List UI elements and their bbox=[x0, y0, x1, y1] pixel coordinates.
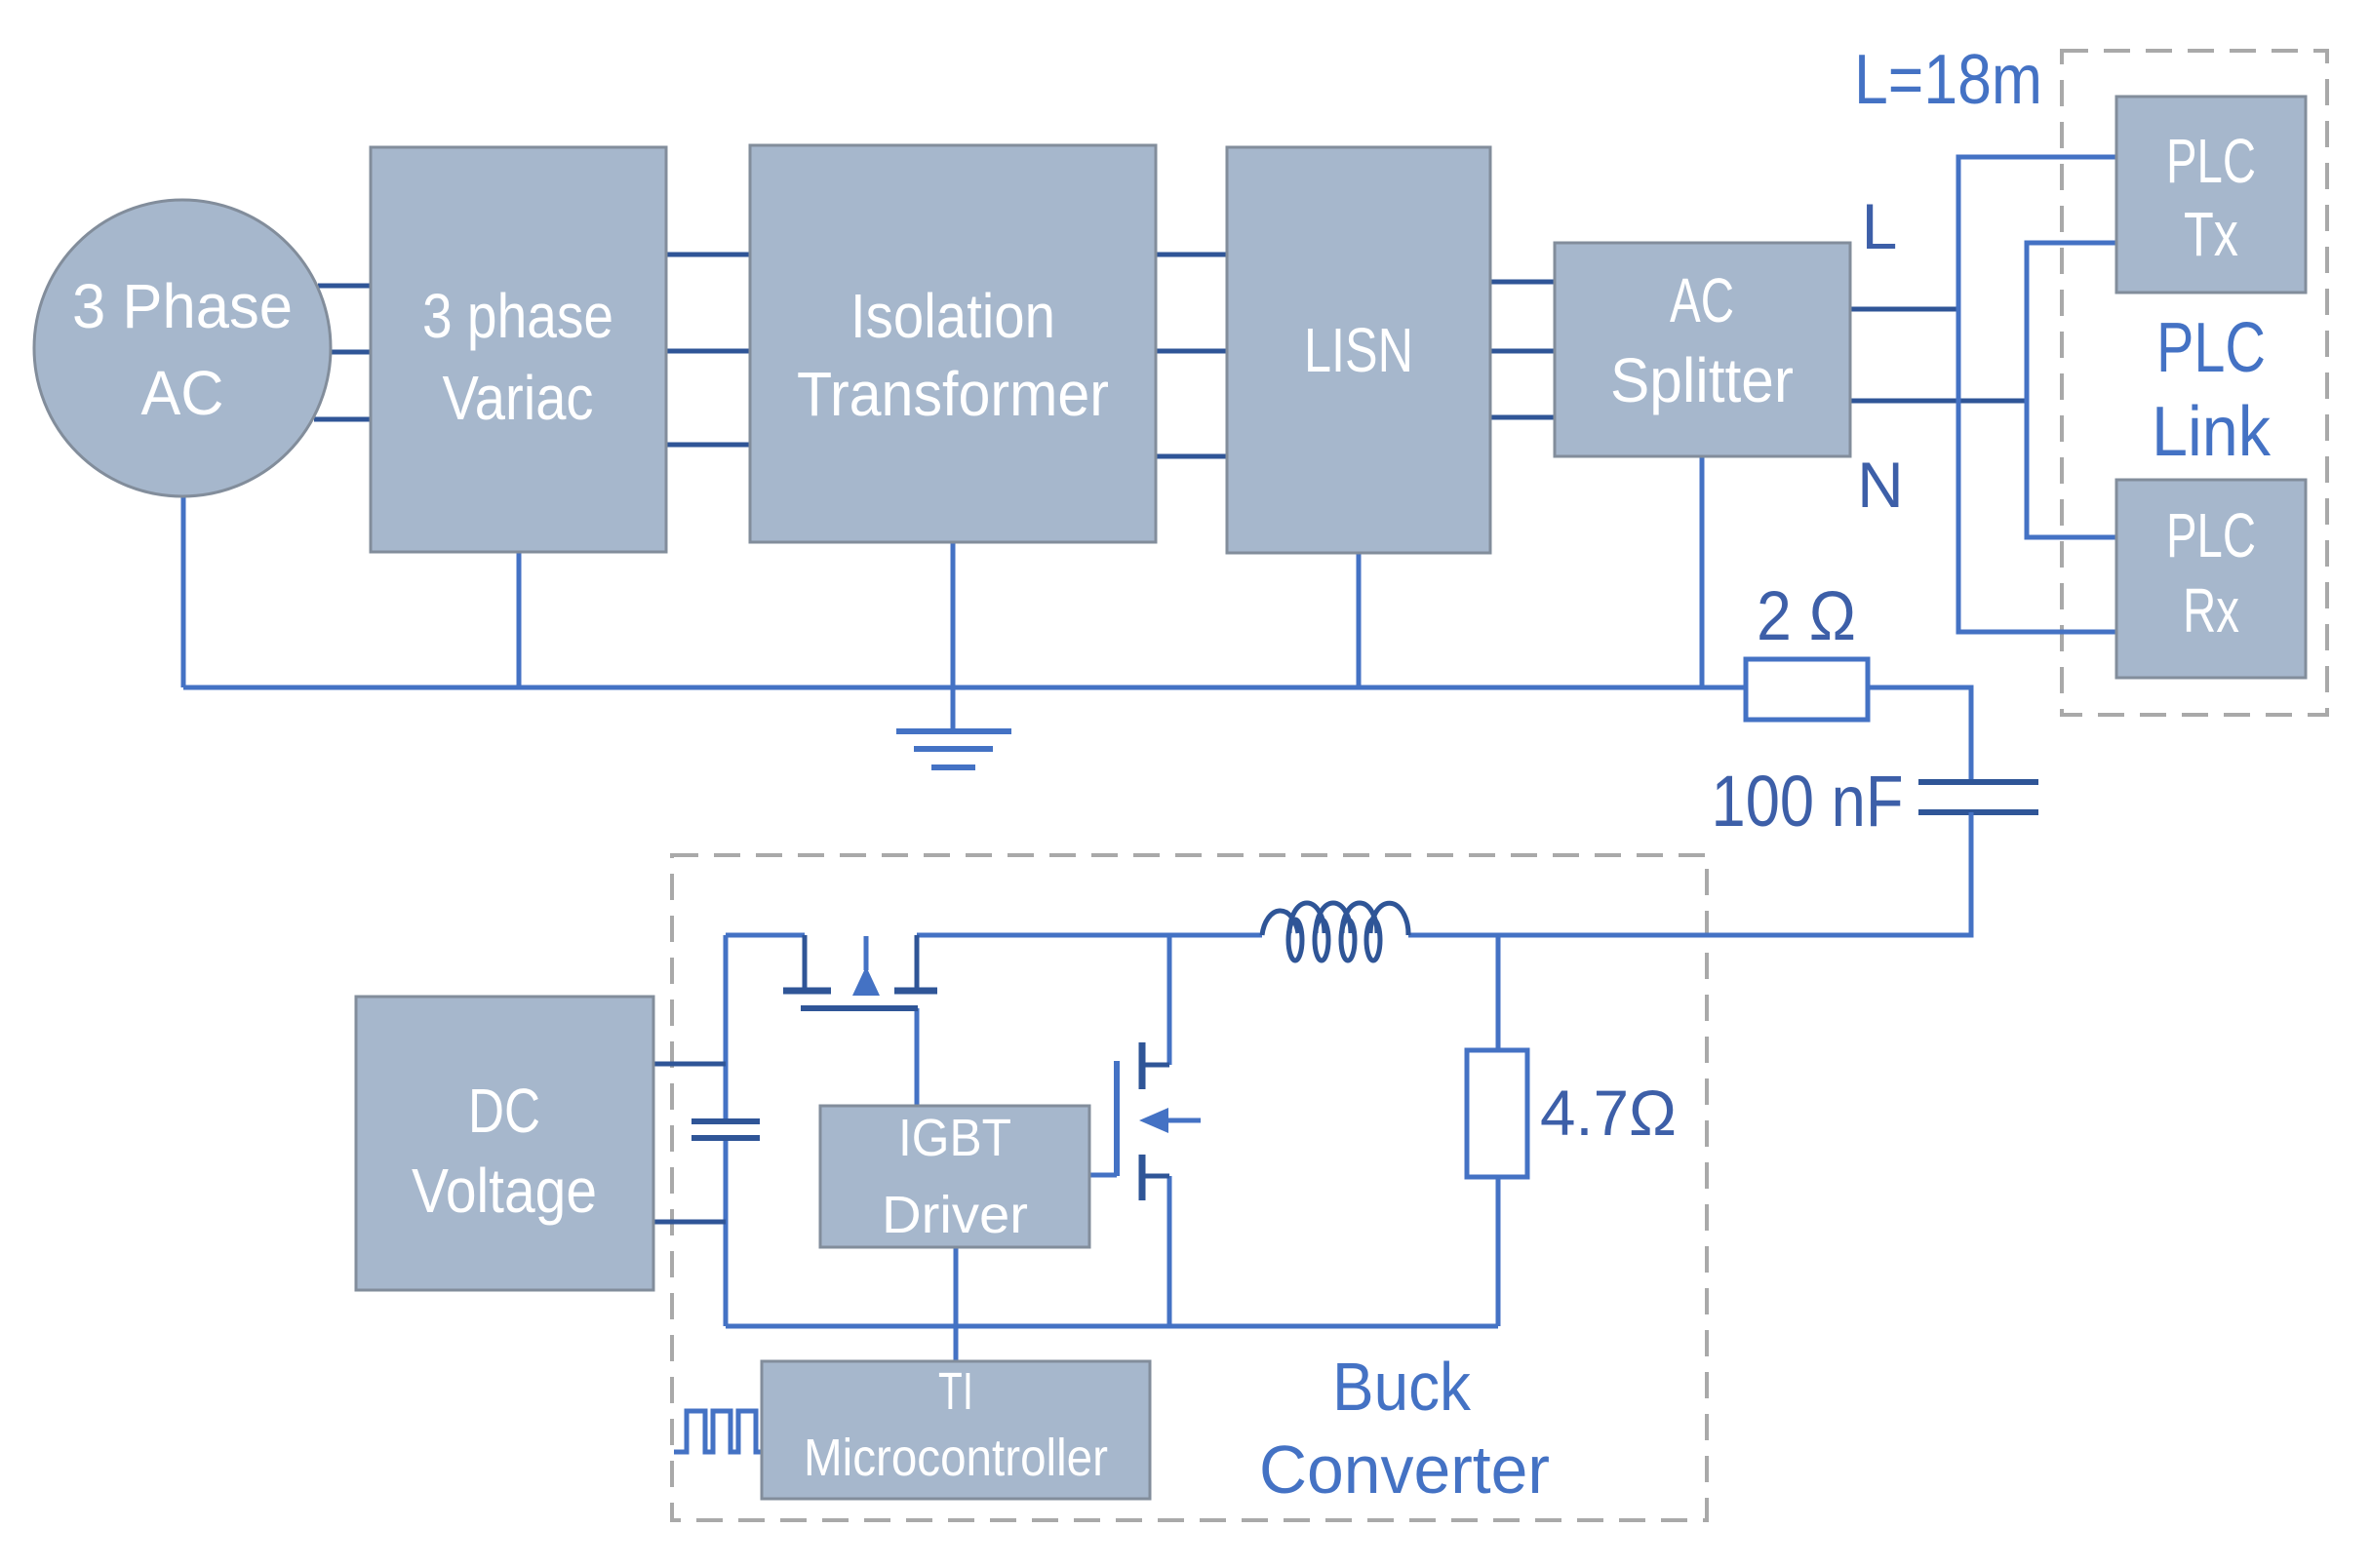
svg-text:L: L bbox=[1862, 190, 1898, 262]
svg-text:Tx: Tx bbox=[2184, 199, 2238, 269]
svg-text:Voltage: Voltage bbox=[412, 1156, 597, 1226]
svg-text:LISN: LISN bbox=[1304, 315, 1413, 385]
svg-text:Buck: Buck bbox=[1332, 1349, 1472, 1425]
svg-text:IGBT: IGBT bbox=[898, 1109, 1011, 1167]
svg-text:AC: AC bbox=[1670, 265, 1734, 335]
svg-text:L=18m: L=18m bbox=[1854, 41, 2042, 119]
svg-text:Rx: Rx bbox=[2183, 575, 2239, 646]
svg-text:Converter: Converter bbox=[1259, 1431, 1550, 1508]
svg-text:Transformer: Transformer bbox=[797, 359, 1109, 429]
svg-text:100 nF: 100 nF bbox=[1712, 761, 1904, 842]
svg-text:TI: TI bbox=[938, 1362, 973, 1421]
svg-text:3 phase: 3 phase bbox=[422, 281, 613, 351]
svg-text:Splitter: Splitter bbox=[1610, 345, 1794, 415]
svg-text:Isolation: Isolation bbox=[850, 281, 1055, 351]
svg-text:PLC: PLC bbox=[2166, 126, 2256, 196]
svg-text:PLC: PLC bbox=[2166, 500, 2256, 570]
svg-text:DC: DC bbox=[468, 1076, 540, 1146]
svg-text:Driver: Driver bbox=[882, 1186, 1028, 1244]
svg-text:3 Phase: 3 Phase bbox=[72, 271, 293, 341]
svg-text:4.7Ω: 4.7Ω bbox=[1540, 1077, 1677, 1149]
svg-text:Link: Link bbox=[2152, 393, 2272, 471]
svg-text:N: N bbox=[1857, 449, 1904, 521]
svg-text:2 Ω: 2 Ω bbox=[1757, 578, 1856, 655]
svg-text:Variac: Variac bbox=[443, 363, 594, 433]
svg-text:PLC: PLC bbox=[2156, 309, 2266, 387]
svg-text:Microcontroller: Microcontroller bbox=[804, 1429, 1108, 1487]
svg-text:AC: AC bbox=[141, 358, 224, 428]
